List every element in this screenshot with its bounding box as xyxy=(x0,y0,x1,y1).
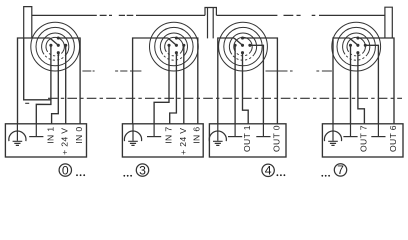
terminal label IN 6 xyxy=(192,127,202,144)
svg-text:IN 1: IN 1 xyxy=(46,127,56,144)
functional earth (PE) terminal symbol, block 3 xyxy=(209,124,226,146)
svg-text:4: 4 xyxy=(265,164,272,178)
functional earth (PE) terminal symbol, block 1 xyxy=(9,124,26,146)
wire: X2 FE bus top edge and left edge down to PE terminal xyxy=(133,38,168,124)
mounting tab right xyxy=(385,7,392,38)
channel number 7 (circled) xyxy=(334,163,346,177)
svg-text:IN 6: IN 6 xyxy=(192,127,202,144)
X4 pin 4 (right) xyxy=(364,44,367,47)
terminal label OUT 7 xyxy=(358,125,368,152)
svg-text:0: 0 xyxy=(62,163,69,177)
M12 socket connector X4 xyxy=(332,22,381,71)
wire: diagonal from FE bus to X3 pin 5 xyxy=(234,38,243,45)
X1 pin 3 (left) xyxy=(49,44,52,47)
terminal block 2 (inputs 4...7) outline xyxy=(122,124,203,157)
wire: X1 pin 3 down, jog left to M terminal xyxy=(36,45,51,124)
X1 pin 1 (top) xyxy=(57,36,60,39)
functional earth (PE) terminal symbol, block 2 xyxy=(124,124,141,146)
wire: X3 pin 4 right then down to second M terminal xyxy=(250,45,264,124)
chassis ground (M) terminal symbol, block 1 xyxy=(29,124,43,137)
functional earth (PE) terminal symbol, block 4 xyxy=(324,124,341,146)
wire: FE drop from tab line to M jog (X1) xyxy=(24,38,51,100)
terminal label OUT 1 xyxy=(242,125,252,152)
svg-text:+ 24 V: + 24 V xyxy=(60,128,70,155)
continuation dash of M-rail at left xyxy=(25,102,29,104)
X3 pin 5 (center) xyxy=(241,44,244,47)
wire: X1 pin 2 down, jog left to IN 1 terminal xyxy=(52,53,59,124)
body lower edge dash-dot between socket 3 and 4 xyxy=(266,70,332,72)
wire: X1 FE bus top edge and left edge down to PE terminal xyxy=(18,38,50,124)
wire: X3 pin 3 down to M terminal xyxy=(234,45,236,124)
wire: X3 FE bus top edge and left edge down to PE terminal xyxy=(218,38,234,124)
chassis ground (M) terminal symbol 1, block 3 xyxy=(228,124,242,137)
svg-text:IN 0: IN 0 xyxy=(74,127,84,144)
module bottom edge dash-dot line xyxy=(48,97,402,99)
wire: X2 pin 4 down to + 24 V terminal xyxy=(183,45,185,124)
chassis ground (M) terminal symbol 2, block 3 xyxy=(256,124,270,137)
ellipsis after channel 0 xyxy=(76,174,85,176)
terminal label + 24 V (block 1) xyxy=(60,128,70,155)
svg-text:+ 24 V: + 24 V xyxy=(178,128,188,155)
terminal block 4 (outputs 4...7) outline xyxy=(322,124,403,157)
ellipsis after channel 4 xyxy=(277,174,286,176)
wire: diagonal from FE bus to X1 pin 5 xyxy=(50,38,59,45)
X1 pin 4 (right) xyxy=(64,44,67,47)
X2 pin 5 (center) xyxy=(175,44,178,47)
svg-text:OUT 7: OUT 7 xyxy=(358,125,368,152)
terminal label IN 1 xyxy=(46,127,56,144)
X1 pin 2 (bottom) xyxy=(57,51,60,54)
terminal label OUT 6 xyxy=(388,125,398,152)
chassis ground (M) terminal symbol 2, block 4 xyxy=(371,124,385,137)
svg-text:OUT 6: OUT 6 xyxy=(388,125,398,152)
X4 pin 1 (top) xyxy=(356,36,359,39)
X4 pin 5 (center) xyxy=(356,44,359,47)
svg-text:OUT 1: OUT 1 xyxy=(242,125,252,152)
X4 pin 3 (left) xyxy=(349,44,352,47)
X4 pin 2 (bottom) xyxy=(356,51,359,54)
svg-text:7: 7 xyxy=(337,163,344,177)
X3 pin 3 (left) xyxy=(234,44,237,47)
chassis ground (M) terminal symbol 1, block 4 xyxy=(343,124,357,137)
X3 pin 1 (top) xyxy=(241,36,244,39)
X2 pin 3 (left) xyxy=(167,44,170,47)
wire: X3 pin 1 to right edge, down to OUT 0 terminal xyxy=(243,38,278,124)
wire: X3 pin 2 down, jog right to OUT 1 terminal xyxy=(243,53,249,124)
body lower edge dash-dot between socket 1 and 2 xyxy=(82,70,141,72)
wire: X4 pin 4 right then down to second M terminal xyxy=(365,45,378,124)
wire: X2 pin 1 to right edge, down to IN 6 terminal xyxy=(176,38,197,124)
wire: X4 pin 2 down, jog right to OUT 7 terminal xyxy=(358,53,365,124)
wire: X1 pin 4 down to + 24 V terminal xyxy=(65,45,67,124)
X3 pin 4 (right) xyxy=(248,44,251,47)
terminal label IN 7 xyxy=(164,127,174,144)
ellipsis before channel 3 xyxy=(123,175,132,177)
chassis ground (M) terminal symbol, block 2 xyxy=(147,124,161,137)
terminal block 1 (inputs 0...3) outline xyxy=(5,124,86,157)
X2 pin 4 (right) xyxy=(182,44,185,47)
wire: X1 pin 1 to right edge, down to IN 0 terminal xyxy=(58,38,80,124)
X1 pin 5 (center) xyxy=(57,44,60,47)
terminal block 3 (outputs 0...3) outline xyxy=(209,124,286,157)
wire: X4 pin 3 down to M terminal xyxy=(350,45,352,124)
X2 pin 1 (top) xyxy=(175,36,178,39)
wire: diagonal from FE bus to X4 pin 5 xyxy=(349,38,358,45)
svg-text:3: 3 xyxy=(139,163,146,177)
mounting tab left xyxy=(24,7,32,39)
X3 pin 2 (bottom) xyxy=(241,51,244,54)
svg-text:IN 7: IN 7 xyxy=(164,127,174,144)
svg-text:OUT 0: OUT 0 xyxy=(271,125,281,152)
channel number 3 (circled) xyxy=(136,163,148,177)
wire: diagonal from FE bus to X2 pin 5 xyxy=(168,38,177,45)
wire: X4 pin 1 to right edge, down to OUT 6 terminal xyxy=(358,38,394,124)
wire: X4 FE bus top edge and left edge down to PE terminal xyxy=(333,38,349,124)
wire: X2 pin 2 down, jog left to IN 7 terminal xyxy=(170,53,177,124)
M12 socket connector X1 xyxy=(31,22,80,71)
channel number 4 (circled) xyxy=(262,164,274,178)
mounting tab center xyxy=(205,8,216,39)
channel number 0 (circled) xyxy=(59,163,71,177)
terminal label OUT 0 xyxy=(271,125,281,152)
X2 pin 2 (bottom) xyxy=(175,51,178,54)
terminal label IN 0 xyxy=(74,127,84,144)
module body top edge with break marks xyxy=(32,14,385,16)
wire: X2 pin 3 down, jog left to M terminal xyxy=(154,45,169,124)
M12 socket connector X2 xyxy=(150,22,199,71)
ellipsis before channel 7 xyxy=(321,175,330,177)
terminal label + 24 V (block 2) xyxy=(178,128,188,155)
M12 socket connector X3 xyxy=(219,22,268,71)
